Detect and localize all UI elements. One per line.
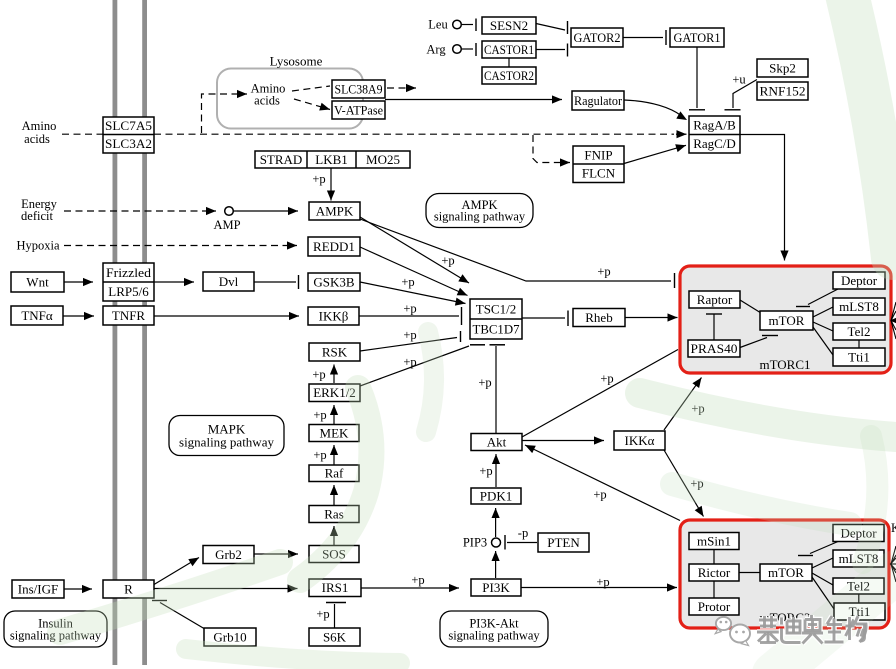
wire amino dashed arrowhead into RagA/B — [676, 130, 687, 138]
wire TNFR to IKKbeta — [154, 312, 299, 320]
svg-text:+p: +p — [479, 464, 492, 478]
svg-text:Wnt: Wnt — [26, 275, 49, 290]
wire ERK1/2 to TSC1/2 +p — [360, 346, 469, 386]
wire GATOR2 to GATOR1 inhibition — [623, 30, 666, 45]
svg-text:signaling pathway: signaling pathway — [448, 628, 540, 642]
svg-text:REDD1: REDD1 — [313, 239, 355, 254]
svg-text:IRS1: IRS1 — [322, 580, 349, 595]
svg-text:acids: acids — [254, 93, 280, 107]
wire Ras to Raf — [330, 485, 338, 505]
wire PI3K to PIP3 — [492, 551, 500, 578]
wire mTOR to Tel2 (mTORC2) — [812, 573, 833, 585]
wires cut off at right edge from mTORC2 — [891, 546, 896, 582]
svg-text:CASTOR1: CASTOR1 — [484, 42, 534, 57]
box Protor — [689, 598, 739, 615]
svg-text:IKKα: IKKα — [625, 433, 655, 448]
svg-text:TSC1/2: TSC1/2 — [476, 302, 516, 317]
wire TSC1/2 to Rheb inhibition — [522, 311, 568, 327]
wire IKKalpha to mTORC1 +p — [664, 378, 702, 431]
svg-text:SLC3A2: SLC3A2 — [105, 136, 152, 151]
svg-text:mLST8: mLST8 — [839, 299, 879, 314]
wire Tel2-Tti1 link — [858, 340, 860, 348]
box CASTOR2 — [482, 67, 536, 84]
svg-text:TNFR: TNFR — [112, 308, 146, 323]
wire dashed amino acids to V-ATPase — [294, 99, 330, 111]
svg-text:Dvl: Dvl — [219, 274, 239, 289]
box SLC7A5/SLC3A2 — [103, 117, 154, 153]
wire Raptor-PRAS40 link — [706, 314, 722, 340]
pathway label Insulin signaling pathway — [4, 611, 107, 647]
box PDK1 — [471, 488, 521, 504]
complex mTORC2 — [680, 520, 889, 628]
box Grb2 — [203, 546, 254, 564]
wire S6K to IRS1 inhibition +p — [326, 603, 346, 629]
AMP compound circle — [225, 207, 234, 216]
svg-text:+p: +p — [403, 301, 416, 315]
box Raptor — [689, 291, 740, 308]
box Tel2 (mTORC1) — [833, 323, 885, 340]
svg-text:PRAS40: PRAS40 — [691, 341, 738, 356]
wire Rheb to mTORC1 — [625, 313, 678, 321]
wire PRAS40 to mTOR inhibition — [740, 336, 778, 348]
Arg compound circle — [453, 45, 462, 54]
svg-text:+p: +p — [596, 575, 609, 589]
svg-text:Deptor: Deptor — [841, 273, 878, 288]
svg-text:Rictor: Rictor — [698, 565, 731, 580]
svg-text:mTOR: mTOR — [769, 313, 805, 328]
svg-text:-p: -p — [518, 526, 528, 540]
svg-text:Tel2: Tel2 — [848, 324, 871, 339]
wire R to Grb2 — [154, 558, 199, 585]
svg-text:PTEN: PTEN — [547, 535, 580, 550]
svg-text:Leu: Leu — [428, 17, 448, 31]
wire Grb2 to SOS — [254, 550, 298, 558]
box CASTOR1 — [482, 41, 536, 58]
wire IKKalpha to mTORC2 +p — [664, 450, 704, 517]
svg-text:RagA/B: RagA/B — [693, 118, 736, 133]
svg-text:Ragulator: Ragulator — [574, 93, 623, 108]
svg-text:FNIP: FNIP — [584, 148, 612, 163]
svg-text:+p: +p — [600, 371, 613, 385]
wire IKKbeta to TSC1/2 inhibition +p — [359, 307, 462, 325]
wire energy deficit dashed to AMP — [64, 207, 216, 215]
wire SESN2 to GATOR2 inhibition — [536, 21, 568, 34]
box S6K — [309, 628, 360, 646]
box mLST8 (mTORC1) — [833, 298, 885, 315]
box mLST8 (mTORC2) — [833, 550, 884, 567]
svg-text:+p: +p — [312, 367, 325, 381]
svg-text:SESN2: SESN2 — [490, 18, 528, 33]
wire PIP3 to PDK1 — [492, 508, 500, 537]
svg-text:FLCN: FLCN — [582, 166, 616, 181]
box Deptor (mTORC2) — [833, 525, 884, 542]
wire RSK to TSC1/2 inhibition +p — [360, 331, 461, 351]
svg-text:MO25: MO25 — [366, 152, 400, 167]
wires cut off at right edge from mTORC1 — [890, 302, 896, 339]
box PRAS40 — [688, 340, 740, 357]
box MEK — [309, 425, 359, 442]
svg-text:+p: +p — [313, 408, 326, 422]
svg-text:R: R — [124, 582, 133, 597]
wire PDK1 to Akt +p — [492, 454, 500, 487]
box PTEN — [538, 533, 589, 552]
box ERK1/2 — [309, 384, 360, 402]
box STRAD/LKB1/MO25 — [255, 151, 410, 168]
wire IRS1 to PI3K +p — [361, 584, 459, 592]
svg-text:GATOR2: GATOR2 — [574, 30, 621, 45]
svg-text:Amino: Amino — [22, 119, 57, 133]
svg-text:TBC1D7: TBC1D7 — [473, 322, 520, 337]
wire Dvl to GSK3B inhibition — [254, 275, 299, 289]
svg-text:GSK3B: GSK3B — [313, 275, 355, 290]
svg-text:Raptor: Raptor — [697, 292, 733, 307]
box TSC1/2/TBC1D7 — [470, 299, 522, 339]
box FNIP/FLCN — [573, 146, 624, 183]
svg-text:PDK1: PDK1 — [480, 489, 513, 504]
wire mTOR to Tel2 — [813, 322, 833, 331]
svg-text:SLC7A5: SLC7A5 — [105, 118, 152, 133]
wire TNFa to TNFR — [63, 312, 94, 320]
svg-text:LRP5/6: LRP5/6 — [108, 284, 149, 299]
lysosome compartment — [217, 69, 363, 129]
wire RNF152 to RagA/B inhibition +u — [725, 80, 758, 110]
svg-text:SLC38A9: SLC38A9 — [335, 82, 383, 97]
svg-text:RagC/D: RagC/D — [693, 136, 736, 151]
svg-text:PI3K: PI3K — [482, 580, 510, 595]
box Ins/IGF — [12, 580, 64, 598]
svg-text:CASTOR2: CASTOR2 — [484, 68, 534, 83]
box IKKβ — [308, 307, 359, 325]
box RSK — [309, 343, 360, 361]
box Tti1 (mTORC2) — [834, 603, 885, 620]
svg-text:mSin1: mSin1 — [697, 534, 731, 549]
svg-text:RNF152: RNF152 — [760, 84, 806, 99]
wire SLC38A9-V-ATPase to Ragulator — [385, 95, 562, 103]
box Dvl — [203, 272, 254, 291]
wire Frizzled to Dvl — [154, 278, 194, 286]
wire Ins/IGF to R — [64, 585, 92, 593]
svg-text:+p: +p — [403, 355, 416, 369]
svg-text:Skp2: Skp2 — [769, 61, 796, 76]
wire dashed input into lysosome amino acids — [202, 90, 248, 133]
box IKKα — [614, 431, 665, 450]
svg-text:signaling pathway: signaling pathway — [434, 210, 526, 224]
box PI3K — [471, 579, 521, 596]
wire Tel2-Tti1 link (mTORC2) — [858, 594, 860, 603]
wire Ragulator to RagA/B — [624, 100, 687, 120]
wire mTOR to Tti1 (mTORC2) — [812, 577, 834, 609]
wire Rictor-Protor link — [713, 581, 715, 598]
svg-text:+p: +p — [478, 375, 491, 389]
svg-text:STRAD: STRAD — [260, 152, 303, 167]
svg-text:+p: +p — [316, 607, 329, 621]
wire Rictor to mTOR link — [739, 572, 760, 574]
pathway label AMPK signaling pathway — [426, 194, 533, 228]
membrane line 2 — [142, 0, 147, 665]
svg-text:+p: +p — [593, 487, 606, 501]
wire AMPK to mTORC1 +p — [360, 219, 675, 288]
box mTOR (mTORC1) — [760, 311, 813, 330]
box RagA/B/RagC/D — [689, 116, 740, 153]
wire mTOR to mLST8 — [813, 307, 833, 317]
wire MEK to ERK +p — [330, 405, 338, 424]
wire Wnt to Frizzled — [64, 278, 93, 286]
wire Deptor to mTOR inhibition (mTORC2) — [798, 542, 838, 556]
wire PI3K to mTORC2 +p — [521, 583, 677, 591]
complex mTORC1 — [680, 266, 891, 373]
wire AMPK to TSC1/2 +p — [360, 217, 469, 283]
box Frizzled/LRP5/6 — [103, 263, 154, 301]
svg-text:RSK: RSK — [322, 345, 348, 360]
wire Raf to MEK +p — [330, 445, 338, 465]
svg-text:V-ATPase: V-ATPase — [334, 103, 383, 118]
wire AMP to AMPK — [234, 207, 299, 215]
wire mSin1-Rictor link — [713, 550, 715, 565]
wire mTOR to mLST8 (mTORC2) — [812, 558, 833, 568]
box R — [103, 580, 154, 598]
svg-text:AMPK: AMPK — [316, 204, 354, 219]
wire SOS to Ras — [330, 526, 338, 545]
svg-text:Lysosome: Lysosome — [270, 54, 323, 69]
box Grb10 — [204, 628, 256, 646]
svg-text:+u: +u — [732, 72, 746, 86]
wire CASTOR1-CASTOR2 link — [508, 58, 510, 67]
box Skp2 — [757, 59, 808, 77]
box GATOR1 — [670, 28, 724, 47]
svg-text:TNFα: TNFα — [21, 308, 53, 323]
svg-text:IKKβ: IKKβ — [319, 309, 349, 324]
box Tti1 (mTORC1) — [833, 348, 885, 366]
box TNFα — [11, 306, 63, 325]
wire CASTOR1 to GATOR2 inhibition — [536, 44, 568, 57]
wire PTEN to PIP3 inhibition -p — [505, 535, 537, 550]
svg-text:deficit: deficit — [21, 209, 53, 223]
svg-text:Protor: Protor — [698, 599, 731, 614]
wire dashed branch to FNIP — [533, 135, 570, 167]
wire Raptor to mTOR — [740, 300, 761, 313]
wire hypoxia dashed to REDD1 — [64, 241, 297, 249]
svg-text:+p: +p — [597, 264, 610, 278]
svg-text:mTOR: mTOR — [768, 565, 804, 580]
svg-text:acids: acids — [24, 132, 50, 146]
svg-text:Rheb: Rheb — [585, 310, 612, 325]
box AMPK — [309, 202, 360, 220]
wire dashed amino acids to SLC38A9 — [292, 86, 330, 91]
box Ragulator — [572, 91, 624, 110]
svg-text:Grb2: Grb2 — [215, 547, 242, 562]
pathway label MAPK signaling pathway — [169, 416, 284, 456]
wire GATOR1 to RagA/B inhibition — [689, 47, 705, 110]
wire Grb10 to R inhibition — [152, 601, 204, 629]
svg-text:mTORC1: mTORC1 — [759, 357, 810, 372]
dashed inhibition bars below TSC1/2 — [470, 344, 505, 346]
box SLC38A9 — [332, 80, 385, 98]
box Rictor — [689, 564, 739, 581]
box Ras — [309, 506, 359, 523]
svg-text:Grb10: Grb10 — [213, 630, 246, 645]
wire Akt to PRAS40 inhibition +p — [522, 344, 681, 437]
wire mTORC2 to Akt +p — [525, 445, 680, 521]
box IRS1 — [309, 579, 361, 597]
wire Deptor to mTOR inhibition — [796, 289, 838, 307]
box REDD1 — [308, 237, 360, 256]
svg-text:+p: +p — [312, 172, 325, 186]
box Deptor (mTORC1) — [833, 272, 885, 289]
box RNF152 — [757, 82, 808, 100]
wire LKB1 to AMPK +p — [327, 168, 335, 201]
box Tel2 (mTORC2) — [833, 578, 884, 594]
svg-text:+p: +p — [441, 253, 454, 267]
pathway label PI3K-Akt signaling pathway — [440, 611, 548, 647]
svg-text:S6K: S6K — [323, 630, 347, 645]
svg-text:Akt: Akt — [487, 435, 507, 450]
wire dashed arrow right of SLC38A9 — [387, 84, 416, 92]
wire Leu to SESN2 inhibition — [462, 19, 476, 32]
watermark chinese text 基迪奥生物 — [757, 616, 779, 643]
svg-text:K: K — [891, 521, 896, 535]
svg-text:GATOR1: GATOR1 — [674, 30, 721, 45]
watermark wechat icon — [715, 617, 750, 646]
svg-text:AMP: AMP — [213, 218, 240, 232]
svg-text:+p: +p — [401, 275, 414, 289]
svg-text:signaling pathway: signaling pathway — [179, 435, 274, 450]
svg-text:PIP3: PIP3 — [463, 535, 487, 549]
svg-text:LKB1: LKB1 — [315, 152, 348, 167]
PIP3 compound circle — [492, 538, 501, 547]
svg-text:+p: +p — [411, 573, 424, 587]
svg-text:Tti1: Tti1 — [848, 350, 870, 365]
membrane line 1 — [113, 0, 118, 665]
wire mTOR to Tti1 — [813, 327, 833, 355]
svg-text:Ins/IGF: Ins/IGF — [18, 582, 58, 597]
wire Arg to CASTOR1 inhibition — [462, 43, 476, 56]
box SOS — [309, 546, 359, 563]
svg-text:+p: +p — [313, 448, 326, 462]
wire ERK to RSK +p — [330, 365, 338, 384]
svg-text:Hypoxia: Hypoxia — [16, 238, 60, 252]
wire Akt to IKKalpha — [522, 436, 604, 444]
wire FLCN to RagC/D — [624, 144, 686, 163]
wire R to IRS1 — [154, 584, 298, 592]
wire Akt to TSC1/2 +p — [495, 346, 497, 433]
svg-text:Raf: Raf — [325, 466, 344, 481]
box mTOR (mTORC2) — [760, 564, 812, 581]
box Rheb — [573, 309, 625, 327]
wire RagC/D to mTORC1 complex — [740, 135, 789, 261]
box Akt — [471, 434, 522, 451]
box SESN2 — [482, 17, 536, 34]
box mSin1 — [689, 533, 739, 550]
box TNFR — [103, 306, 154, 325]
wire REDD1 to TSC1/2 — [360, 247, 468, 296]
wire GSK3B to TSC1/2 +p — [360, 282, 466, 306]
svg-text:Arg: Arg — [426, 42, 446, 56]
svg-text:MEK: MEK — [320, 426, 350, 441]
wire amino acids dashed main line — [62, 133, 674, 135]
box V-ATPase — [332, 101, 385, 119]
box Wnt — [11, 272, 64, 292]
box GSK3B — [308, 273, 360, 291]
Leu compound circle — [453, 20, 462, 29]
box GATOR2 — [571, 28, 623, 47]
svg-text:+p: +p — [403, 328, 416, 342]
svg-text:Frizzled: Frizzled — [106, 265, 152, 280]
box Raf — [309, 465, 359, 482]
